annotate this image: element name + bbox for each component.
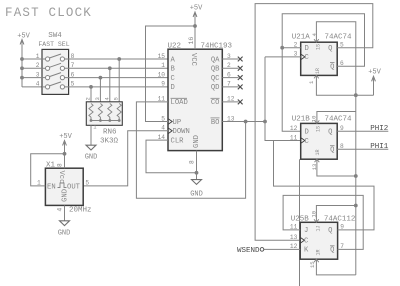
- svg-text:1J: 1J: [316, 225, 322, 231]
- svg-text:5: 5: [85, 179, 89, 186]
- pin PRE U21A: [311, 32, 319, 42]
- label 3K3 ohm: [100, 138, 119, 146]
- flip-flop U21B body: [301, 123, 338, 159]
- label U22: [168, 42, 182, 50]
- svg-text:11: 11: [290, 134, 298, 141]
- wire tap RN6 pin5: [118, 59, 120, 102]
- label 20MHz: [69, 207, 92, 215]
- pin LOAD U22: [158, 96, 188, 108]
- label U25B: [291, 215, 310, 223]
- svg-text:LOAD: LOAD: [171, 99, 188, 107]
- junction bus row3: [20, 76, 24, 80]
- wire PHI1: [337, 148, 388, 150]
- svg-text:16: 16: [188, 37, 195, 45]
- oscillator X1 body: [45, 168, 83, 205]
- svg-text:Q: Q: [330, 147, 334, 155]
- junction VCC: [193, 24, 197, 28]
- wire stub below U21B: [299, 159, 301, 286]
- pin DOWN U22: [161, 125, 189, 137]
- label RN6: [103, 128, 117, 136]
- svg-text:Vcc: Vcc: [57, 171, 65, 184]
- wire +5V to UP: [146, 26, 196, 122]
- junction bus row2: [20, 66, 24, 70]
- flip-flop U21A body: [301, 42, 338, 75]
- svg-text:Q: Q: [330, 247, 334, 255]
- svg-text:Q: Q: [330, 64, 334, 72]
- no-connect QD: [238, 85, 243, 90]
- ground (U22): [190, 173, 203, 199]
- no-connect QA: [238, 57, 243, 62]
- svg-text:6: 6: [340, 60, 344, 67]
- svg-text:QA: QA: [211, 56, 220, 64]
- sw pole 2: [46, 63, 65, 70]
- svg-text:Q: Q: [328, 45, 332, 53]
- svg-text:CLR: CLR: [171, 137, 185, 145]
- svg-text:PHI2: PHI2: [370, 125, 388, 133]
- wire RN6 to gnd: [90, 125, 92, 145]
- wire SW4 pin3: [42, 77, 46, 79]
- pin J U25B: [290, 224, 308, 236]
- switch SW4 body: [42, 49, 69, 94]
- svg-text:+5V: +5V: [190, 5, 203, 13]
- pin QB U22: [211, 62, 239, 74]
- label 74AC112: [324, 215, 356, 223]
- svg-text:DOWN: DOWN: [173, 128, 190, 136]
- pin C U21A: [294, 51, 310, 63]
- svg-text:GND: GND: [85, 154, 98, 162]
- svg-text:QD: QD: [211, 84, 220, 92]
- junction RN6 rail a: [90, 119, 93, 122]
- pin Vcc X1: [57, 163, 65, 183]
- svg-text:K: K: [304, 247, 309, 255]
- sw pole 1: [46, 54, 65, 61]
- pin OUT X1: [67, 179, 89, 191]
- pin number 7: [71, 62, 75, 69]
- pin QD U22: [211, 81, 239, 93]
- wire CLR U21B to +5V: [317, 159, 356, 176]
- wire SW4 pin7 to U22: [65, 67, 169, 69]
- ic U22 74HC193 body: [168, 49, 222, 150]
- svg-text:74AC74: 74AC74: [325, 33, 353, 41]
- svg-text:C: C: [171, 75, 176, 83]
- no-connect QC: [238, 75, 243, 80]
- resistor RN6 element 3: [98, 104, 102, 121]
- wire SW4 pin8 to U22: [65, 58, 169, 60]
- svg-text:+5V: +5V: [368, 69, 381, 77]
- marker R U25B: [316, 249, 322, 255]
- svg-text:9: 9: [161, 81, 165, 88]
- svg-text:WSEND: WSEND: [237, 247, 260, 255]
- pin number 1: [36, 53, 40, 60]
- svg-text:15: 15: [309, 261, 316, 268]
- junction RN6 rail d: [118, 119, 121, 122]
- svg-text:10: 10: [158, 71, 166, 78]
- wire SW4 pin2: [42, 67, 46, 69]
- pin BO U22: [211, 115, 235, 127]
- power +5V (right): [368, 69, 381, 96]
- svg-text:J: J: [304, 227, 308, 235]
- svg-text:RN6: RN6: [103, 128, 117, 136]
- pin GND X1: [57, 189, 70, 221]
- junction BO/LOAD: [244, 120, 248, 124]
- svg-text:+5V: +5V: [17, 33, 30, 41]
- svg-text:GND: GND: [62, 189, 70, 202]
- wire PRE loop3: [316, 22, 355, 96]
- wire Qbar feedback (loop2): [282, 14, 364, 132]
- pin A U22: [158, 53, 176, 65]
- label FAST SEL: [38, 41, 69, 48]
- sw pole 4: [46, 82, 65, 89]
- wire WSEND: [260, 248, 300, 252]
- power +5V (X1): [59, 133, 72, 168]
- pin Qbar U21B: [330, 143, 344, 155]
- svg-text:1R: 1R: [315, 149, 321, 155]
- wire J loop: [283, 195, 363, 249]
- svg-text:3: 3: [94, 97, 101, 100]
- svg-text:20MHz: 20MHz: [69, 207, 92, 215]
- pin UP U22: [161, 115, 181, 127]
- svg-text:13: 13: [290, 234, 298, 241]
- label PHI1: [370, 143, 389, 151]
- pin C U22: [158, 71, 176, 83]
- svg-text:8: 8: [189, 160, 196, 164]
- junction +5V rail: [354, 93, 358, 97]
- pin K U25B: [290, 243, 309, 255]
- pin CLR U21B: [311, 159, 319, 170]
- wire SW4 pin5 to U22: [65, 86, 169, 88]
- svg-text:1S: 1S: [316, 126, 322, 132]
- svg-text:1: 1: [37, 179, 41, 186]
- pin CLR U21A: [308, 75, 319, 84]
- label U21B: [292, 115, 311, 123]
- wire PRE U25B to +5V: [316, 206, 355, 223]
- ground (RN6): [85, 145, 98, 161]
- junction bus row1: [20, 57, 24, 61]
- pin D U22: [161, 81, 175, 93]
- junction U22 gnd: [195, 171, 199, 175]
- pin number 4 (RN6): [103, 97, 110, 101]
- pin CLR U22: [158, 134, 185, 146]
- svg-text:A: A: [171, 56, 176, 64]
- wire tap RN6 pin2: [90, 87, 92, 102]
- svg-text:U25B: U25B: [291, 215, 310, 223]
- pin number 4: [36, 81, 40, 88]
- svg-text:X1: X1: [46, 162, 56, 170]
- pin Qbar U25B: [330, 243, 344, 255]
- wire bus to pin4: [22, 86, 42, 88]
- pin C U21B: [290, 134, 310, 146]
- wire BO: [222, 121, 265, 123]
- svg-text:1S: 1S: [316, 44, 322, 50]
- svg-text:CO: CO: [211, 99, 220, 107]
- svg-text:1R: 1R: [315, 68, 321, 74]
- junction BO end: [263, 120, 267, 124]
- wire CLR U21A to +5V rail: [316, 75, 373, 95]
- wire D U21A: [282, 47, 301, 49]
- junction X1 vcc: [63, 152, 67, 156]
- pin PRE U21B: [311, 116, 320, 124]
- pin QC U22: [211, 71, 239, 83]
- svg-text:VCC: VCC: [189, 53, 197, 67]
- svg-text:QB: QB: [211, 66, 220, 74]
- svg-text:D: D: [305, 45, 309, 53]
- pin B U22: [161, 62, 175, 74]
- svg-text:+5V: +5V: [59, 133, 72, 141]
- pin Q U25B: [328, 224, 344, 236]
- marker S U25B: [316, 225, 322, 231]
- resistor RN6 element 5: [117, 104, 121, 121]
- resistor RN6 element 4: [108, 104, 112, 121]
- wire row3 stub: [22, 77, 42, 79]
- svg-text:8: 8: [57, 163, 64, 167]
- pin number 3: [36, 71, 40, 78]
- label X1: [46, 162, 56, 170]
- pin CLR U25B: [309, 259, 319, 268]
- wire SW4 pin1: [42, 58, 46, 60]
- pin number 3 (RN6): [94, 97, 101, 100]
- svg-text:U21A: U21A: [292, 33, 311, 41]
- svg-text:U22: U22: [168, 42, 182, 50]
- svg-text:4: 4: [36, 81, 40, 88]
- wire tap RN6 pin3: [99, 78, 101, 102]
- pin number 5 (RN6): [113, 97, 120, 100]
- pin number 5: [71, 81, 75, 88]
- marker R U21A: [315, 68, 321, 74]
- pin QA U22: [211, 53, 239, 65]
- svg-text:SW4: SW4: [48, 32, 62, 40]
- pin CO U22: [211, 96, 239, 108]
- pin D U21A: [294, 42, 309, 54]
- wire Q U25B loop: [274, 141, 375, 230]
- svg-text:1: 1: [161, 62, 165, 69]
- wire row2 stub: [22, 67, 42, 69]
- power +5V (SW4 bus): [17, 33, 30, 87]
- svg-text:GND: GND: [190, 191, 203, 199]
- svg-text:GND: GND: [193, 135, 201, 148]
- wire +5V vertical: [355, 95, 357, 275]
- junction RN6 rail b: [99, 119, 102, 122]
- svg-text:7: 7: [340, 243, 344, 250]
- svg-text:5: 5: [113, 97, 120, 100]
- wire SW4 pin4: [42, 86, 46, 88]
- pin number 8: [71, 53, 75, 60]
- svg-text:74AC74: 74AC74: [325, 115, 353, 123]
- svg-text:BO: BO: [211, 119, 220, 127]
- label SW4: [48, 32, 62, 40]
- wire PHI2: [337, 130, 388, 132]
- pin Q U21A: [328, 42, 344, 54]
- pin VCC U22: [188, 26, 197, 67]
- junction PRE U25B rail: [354, 204, 358, 208]
- svg-text:D: D: [171, 84, 175, 92]
- junction tap row3: [99, 76, 103, 80]
- svg-text:Q: Q: [328, 129, 332, 137]
- label 74AC74 (A): [325, 33, 353, 41]
- power +5V (U22): [190, 5, 203, 27]
- resistor RN6 element 2: [89, 104, 93, 121]
- svg-text:2: 2: [85, 97, 92, 100]
- junction CLR U21B rail: [354, 174, 358, 178]
- wire EN to +5V: [31, 154, 65, 186]
- svg-text:UP: UP: [173, 119, 182, 127]
- label PHI2: [370, 125, 388, 133]
- wire PRE U21B to +5V: [317, 112, 356, 124]
- svg-text:GND: GND: [58, 230, 71, 238]
- svg-text:15: 15: [158, 53, 166, 60]
- svg-text:U21B: U21B: [292, 115, 311, 123]
- label 74AC74 (B): [325, 115, 353, 123]
- svg-text:EN: EN: [47, 183, 56, 191]
- svg-text:Q: Q: [328, 227, 332, 235]
- svg-text:FAST SEL: FAST SEL: [38, 41, 69, 48]
- wire X1 OUT to DOWN: [83, 131, 168, 186]
- wire CLR to gnd rail: [146, 140, 197, 173]
- title FAST CLOCK: [5, 6, 92, 20]
- svg-text:PHI1: PHI1: [370, 143, 389, 151]
- wire Q U21A (loop1): [255, 4, 373, 241]
- svg-text:4: 4: [57, 208, 64, 212]
- svg-text:1R: 1R: [316, 249, 322, 255]
- no-connect CO: [238, 100, 243, 105]
- wire CLR U25B to +5V: [316, 259, 355, 275]
- wire LOAD loop: [136, 102, 245, 198]
- pin D U21B: [290, 125, 309, 137]
- wire tap RN6 pin4: [109, 68, 111, 102]
- pin GND U22: [189, 135, 202, 173]
- pin C U25B: [290, 234, 309, 246]
- wire bus vertical: [21, 44, 23, 87]
- flip-flop U25B body: [300, 222, 337, 259]
- clock waveform X1: [58, 183, 67, 188]
- pin PRE U25B: [311, 211, 319, 222]
- pin number 6: [71, 71, 75, 78]
- junction RN6 rail c: [108, 119, 111, 122]
- marker S U21A: [316, 44, 322, 50]
- sw pole 3: [46, 73, 65, 80]
- no-connect QB: [238, 66, 243, 71]
- wire SW4 pin6 to U22: [65, 77, 169, 79]
- svg-text:3K3Ω: 3K3Ω: [100, 138, 119, 146]
- label WSEND: [237, 247, 260, 255]
- pin number 1 (RN6): [93, 124, 97, 131]
- svg-text:74AC112: 74AC112: [324, 215, 356, 223]
- marker S U21B: [316, 126, 322, 132]
- wire row1 stub: [22, 58, 42, 60]
- junction D net: [280, 46, 284, 50]
- junction tap row1: [117, 57, 121, 61]
- pin number 2 (RN6): [85, 97, 92, 100]
- junction tap row4: [89, 85, 93, 89]
- svg-text:74HC193: 74HC193: [201, 42, 233, 50]
- svg-text:12: 12: [290, 125, 298, 132]
- label 74HC193: [201, 42, 233, 50]
- ground (X1): [58, 221, 71, 238]
- wire RN6 common rail: [91, 120, 119, 122]
- svg-text:FAST CLOCK: FAST CLOCK: [5, 6, 92, 20]
- svg-text:QC: QC: [211, 75, 220, 83]
- marker R U21B: [315, 149, 321, 155]
- svg-text:C: C: [305, 54, 310, 62]
- wire BO to clocks: [265, 57, 301, 141]
- junction tap row2: [108, 66, 112, 70]
- svg-text:D: D: [305, 129, 309, 137]
- svg-text:B: B: [171, 66, 176, 74]
- svg-text:C: C: [304, 238, 309, 246]
- pin Qbar U21A: [330, 60, 344, 72]
- label U21A: [292, 33, 311, 41]
- pin Q U21B: [328, 125, 344, 137]
- resistor network RN6 body: [86, 102, 122, 126]
- svg-text:C: C: [305, 138, 310, 146]
- pin number 2: [36, 62, 40, 69]
- pin EN X1: [37, 179, 56, 191]
